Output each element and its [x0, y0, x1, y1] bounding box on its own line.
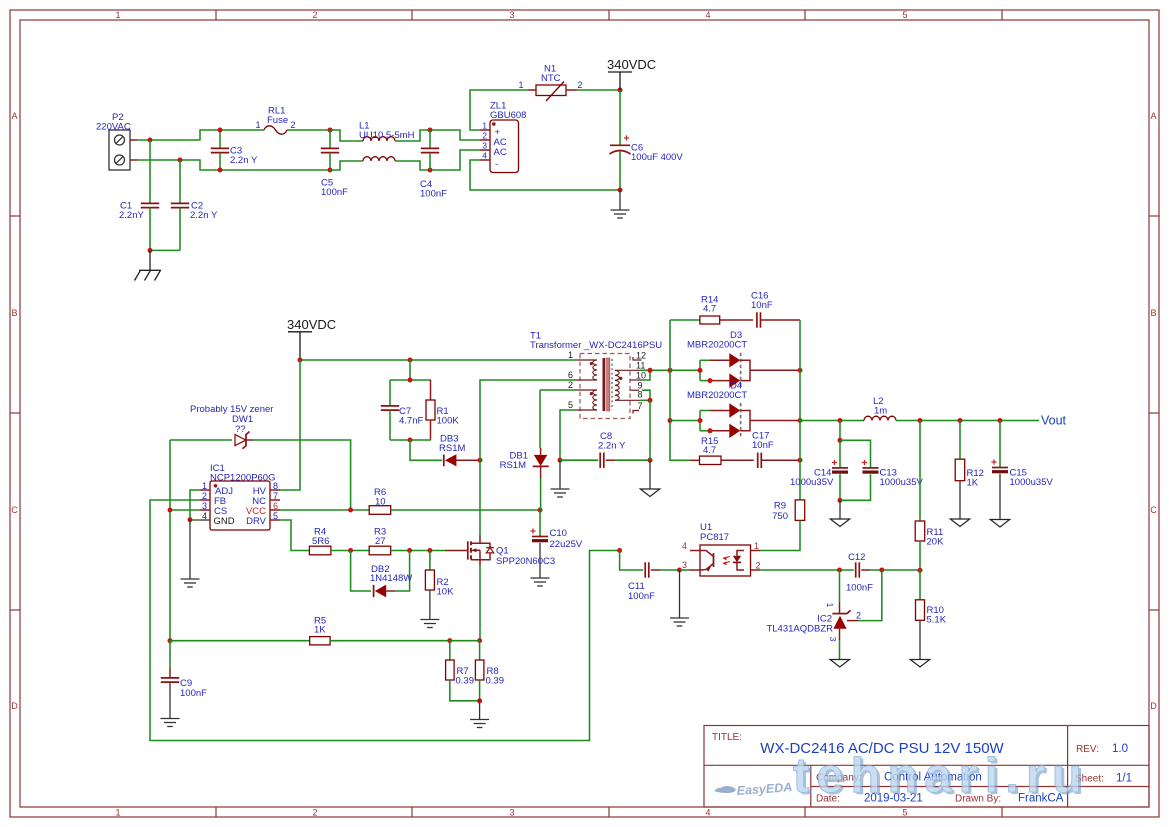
junction (480,460.2)	[478, 458, 483, 463]
junction (410,360)	[408, 358, 413, 363]
wire opto pin2 to C12	[760, 569, 854, 571]
svg-text:7: 7	[638, 401, 643, 411]
wire P2.2 to bottom rail	[137, 160, 330, 170]
svg-text:100nF: 100nF	[180, 688, 207, 699]
resistor R6 10	[369, 487, 391, 514]
svg-text:5: 5	[273, 511, 278, 521]
svg-text:2: 2	[290, 120, 295, 130]
junction (620,190)	[618, 188, 623, 193]
inductor L1	[359, 121, 415, 162]
junction (1000,420.5)	[998, 418, 1003, 423]
svg-text:4.7: 4.7	[703, 445, 716, 456]
svg-text:D: D	[11, 701, 18, 711]
ground (primary bulk)	[611, 190, 630, 218]
svg-text:TITLE:: TITLE:	[712, 732, 742, 743]
svg-text:0.39: 0.39	[456, 676, 475, 687]
svg-text:1K: 1K	[967, 478, 979, 489]
junction (840,500.3)	[838, 498, 843, 503]
svg-text:5R6: 5R6	[312, 536, 329, 547]
junction (430,130)	[428, 128, 433, 133]
wire P2.1 to top rail	[137, 130, 264, 140]
thermistor N1 NTC	[518, 64, 582, 102]
capacitor C12 100nF	[846, 552, 920, 594]
junction (800,460.2)	[798, 458, 803, 463]
junction (710,430.8)	[708, 428, 713, 433]
capacitor C3	[211, 130, 258, 170]
svg-text:R9: R9	[774, 501, 786, 512]
wire T1 pin11/10 secondary plus	[640, 369, 700, 371]
junction (670,420.5)	[668, 418, 673, 423]
wire C11 to opto pin3	[680, 569, 691, 571]
svg-text:100nF: 100nF	[321, 187, 348, 198]
resistor R7 0.39	[446, 641, 480, 701]
junction (960,420.5)	[958, 418, 963, 423]
junction (700,420.5)	[698, 418, 703, 423]
svg-text:2: 2	[202, 491, 207, 501]
svg-text:B: B	[11, 308, 17, 318]
svg-text:AC: AC	[494, 147, 507, 158]
svg-text:1: 1	[482, 121, 487, 131]
junction (650,400.3)	[648, 398, 653, 403]
optocoupler U1 PC817	[682, 522, 761, 576]
svg-text:5.1K: 5.1K	[927, 615, 947, 626]
ground (IC2)	[830, 660, 849, 668]
resistor R2 10K	[425, 551, 454, 620]
net flag 340VDC (primary rail)	[287, 317, 336, 360]
net flag 340VDC (top)	[607, 57, 656, 90]
svg-text:Fuse: Fuse	[267, 115, 288, 126]
capacitor C4	[420, 130, 447, 200]
junction (350.6,510)	[348, 508, 353, 513]
ground (C10)	[531, 577, 550, 579]
svg-text:1/1: 1/1	[1116, 773, 1132, 785]
svg-text:C10: C10	[550, 528, 567, 539]
junction (620,90)	[618, 88, 623, 93]
wire 340VDC down to IC1 HV	[280, 360, 300, 490]
junction (409.6,550.5)	[407, 548, 412, 553]
svg-text:3: 3	[509, 10, 514, 20]
svg-text:Q1: Q1	[496, 546, 509, 557]
svg-text:0.39: 0.39	[486, 676, 505, 687]
ground (C8 primary side)	[551, 460, 570, 497]
diode DB2 1N4148W	[351, 551, 413, 598]
resistor R9 750	[772, 500, 805, 522]
svg-text:100nF: 100nF	[628, 591, 655, 602]
svg-text:11: 11	[636, 361, 645, 371]
resistor R14 4.7	[670, 295, 753, 325]
junction (410,440)	[408, 438, 413, 443]
resistor R1 100K	[426, 380, 459, 440]
junction (560,460.2)	[558, 458, 563, 463]
transformer T1 WX-DC2416PSU	[530, 331, 662, 419]
diode D3 MBR20200CT	[687, 330, 800, 388]
svg-text:MBR20200CT: MBR20200CT	[687, 390, 747, 401]
wire R4 to R3	[331, 550, 369, 552]
svg-text:1: 1	[115, 10, 120, 20]
junction (180,160)	[178, 158, 183, 163]
junction (650,370.3)	[648, 368, 653, 373]
svg-text:1.0: 1.0	[1112, 743, 1128, 755]
wire T1 pin8/9 secondary return	[640, 399, 650, 401]
ground (C9)	[161, 718, 180, 720]
wire CS net	[170, 509, 200, 511]
svg-text:DRV: DRV	[246, 516, 267, 527]
svg-text:SPP20N60C3: SPP20N60C3	[496, 556, 555, 567]
resistor R3 27	[369, 527, 391, 555]
svg-text:10: 10	[375, 497, 386, 508]
junction (700,370.3)	[698, 368, 703, 373]
wire NTC to 340VDC node	[577, 89, 620, 91]
junction (670,370.3)	[668, 368, 673, 373]
svg-text:10nF: 10nF	[751, 300, 773, 311]
wire output rail	[799, 370, 801, 500]
svg-text:RS1M: RS1M	[500, 460, 526, 471]
svg-text:4: 4	[682, 541, 687, 551]
svg-text:100nF: 100nF	[846, 583, 873, 594]
svg-text:MBR20200CT: MBR20200CT	[687, 340, 747, 351]
svg-text:B: B	[1150, 308, 1156, 318]
junction (429.9,550.5)	[427, 548, 432, 553]
wire R3 to Q1 gate	[391, 550, 445, 552]
svg-text:6: 6	[273, 501, 278, 511]
svg-text:100K: 100K	[437, 416, 460, 427]
resistor R4 5R6	[309, 527, 331, 555]
junction (650,460.2)	[648, 458, 653, 463]
op-amp controller IC1 NCP1200P60G	[200, 463, 280, 530]
junction (150,140)	[148, 138, 153, 143]
wire bridge pin4 to negative rail	[470, 160, 620, 190]
svg-text:A: A	[11, 111, 17, 121]
capacitor C9 100nF	[161, 641, 207, 719]
junction (330,130)	[328, 128, 333, 133]
wire L1 to C4 top	[395, 130, 480, 141]
svg-text:5: 5	[568, 400, 573, 410]
svg-text:3: 3	[682, 560, 687, 570]
svg-text:2: 2	[312, 808, 317, 818]
svg-text:1: 1	[202, 481, 207, 491]
ground (R7/R8)	[470, 701, 489, 728]
junction (220,130)	[218, 128, 223, 133]
junction (190,519.7)	[188, 517, 193, 522]
capacitor C6 100uF 400V	[610, 90, 684, 190]
shunt regulator IC2 TL431AQDBZR	[766, 570, 881, 660]
svg-text:1: 1	[518, 80, 523, 90]
fuse RL1	[255, 106, 295, 135]
svg-text:3: 3	[509, 808, 514, 818]
wire R9 to opto pin1	[760, 521, 800, 551]
svg-text:27: 27	[375, 536, 386, 547]
inductor L2 1m	[864, 396, 896, 421]
svg-text:4: 4	[202, 511, 207, 521]
capacitor C2	[171, 160, 218, 250]
svg-text:5: 5	[902, 808, 907, 818]
svg-text:1000u35V: 1000u35V	[880, 477, 924, 488]
svg-text:6: 6	[568, 370, 573, 380]
svg-text:Transformer _WX-DC2416PSU: Transformer _WX-DC2416PSU	[530, 340, 662, 351]
capacitor C13 1000u35V	[840, 440, 923, 500]
ground (R10)	[910, 660, 929, 668]
svg-text:1: 1	[754, 541, 759, 551]
wire T1 pin5 riser	[560, 410, 575, 460]
capacitor C14 1000u35V	[790, 421, 848, 501]
junction (430,170)	[428, 168, 433, 173]
svg-text:340VDC: 340VDC	[607, 57, 656, 72]
svg-text:10nF: 10nF	[752, 440, 774, 451]
svg-text:2: 2	[756, 561, 761, 571]
svg-text:340VDC: 340VDC	[287, 317, 336, 332]
capacitor C5	[321, 130, 348, 198]
svg-text:4: 4	[705, 808, 710, 818]
svg-text:UU10.5-5mH: UU10.5-5mH	[359, 130, 415, 141]
svg-text:7: 7	[273, 491, 278, 501]
ground (C14)	[830, 500, 849, 526]
ground (R12)	[950, 519, 969, 527]
svg-text:GND: GND	[214, 516, 235, 527]
wire ADJ to GND	[190, 490, 200, 520]
ground (secondary return)	[640, 460, 659, 496]
wire Vout line	[800, 420, 864, 422]
svg-text:C: C	[1150, 505, 1157, 515]
svg-text:8: 8	[638, 390, 643, 400]
ground (opto pin3)	[670, 570, 689, 626]
svg-text:20K: 20K	[927, 537, 945, 548]
wire L2 to Vout	[896, 420, 1039, 422]
svg-text:3: 3	[202, 501, 207, 511]
svg-text:4.7nF: 4.7nF	[399, 416, 423, 427]
svg-text:2: 2	[312, 10, 317, 20]
svg-text:1: 1	[825, 603, 835, 608]
resistor R11 20K	[915, 421, 944, 571]
svg-text:2.2n Y: 2.2n Y	[190, 210, 218, 221]
ground (IC1 GND)	[181, 520, 200, 587]
svg-text:4.7: 4.7	[703, 304, 716, 315]
bridge rectifier ZL1 GBU608	[480, 101, 526, 173]
svg-text:750: 750	[772, 511, 788, 522]
svg-text:NCP1200P60G: NCP1200P60G	[210, 473, 275, 484]
zener DW1	[170, 404, 351, 510]
svg-text:2.2n Y: 2.2n Y	[230, 155, 258, 166]
svg-text:1: 1	[115, 808, 120, 818]
junction (350.6,550.5)	[348, 548, 353, 553]
svg-text:1m: 1m	[874, 406, 887, 417]
junction (170,510)	[168, 508, 173, 513]
wire R5 to R8	[450, 640, 480, 642]
svg-text:C12: C12	[848, 552, 865, 563]
transistor Q1 SPP20N60C3	[468, 535, 555, 567]
junction (920,420.5)	[918, 418, 923, 423]
svg-text:tehnari.ru: tehnari.ru	[793, 749, 1089, 803]
svg-text:2: 2	[568, 380, 573, 390]
wire 340VDC rail to T1 pin1	[300, 359, 575, 361]
svg-text:4: 4	[482, 151, 487, 161]
svg-text:5: 5	[902, 10, 907, 20]
svg-text:1N4148W: 1N4148W	[370, 573, 412, 584]
svg-text:C: C	[11, 505, 18, 515]
junction (449.8,640.6)	[447, 638, 452, 643]
wire bridge pin1 riser to NTC	[470, 90, 528, 130]
capacitor C1	[119, 140, 159, 250]
wire D4 feed	[670, 420, 700, 422]
svg-text:PC817: PC817	[700, 532, 729, 543]
junction (840,420.5)	[838, 418, 843, 423]
junction (540,510)	[538, 508, 543, 513]
junction (920,570.3)	[918, 568, 923, 573]
capacitor C8 2.2n Y	[560, 431, 650, 468]
junction (479.6,640.6)	[477, 638, 482, 643]
capacitor C17 10nF	[752, 431, 800, 469]
title block	[704, 726, 1149, 808]
svg-text:1: 1	[568, 350, 573, 360]
svg-text:Vout: Vout	[1041, 414, 1067, 428]
svg-text:1K: 1K	[314, 625, 326, 636]
svg-text:2: 2	[482, 131, 487, 141]
svg-text:22u25V: 22u25V	[550, 539, 583, 550]
svg-text:A: A	[1150, 111, 1156, 121]
junction (710,380.6)	[708, 378, 713, 383]
junction (881.8,570)	[879, 568, 884, 573]
wire T1 pin6 to Q1 drain	[480, 380, 575, 535]
capacitor C7	[381, 380, 424, 440]
wire fuse to C5	[287, 130, 363, 141]
EasyEDA logo	[714, 780, 793, 798]
wire L1 to C4 bottom	[395, 150, 480, 170]
wire snubber bottom	[390, 439, 431, 441]
wire VCC rail	[280, 509, 369, 511]
resistor R10 5.1K	[916, 570, 947, 660]
capacitor C10 22u25V	[530, 510, 583, 578]
junction (479.6,700.8)	[477, 698, 482, 703]
resistor R15 4.7	[690, 436, 754, 465]
resistor R12 1K	[955, 421, 984, 520]
junction (170,640.7)	[168, 638, 173, 643]
svg-text:3: 3	[828, 637, 838, 642]
junction (679.5,570)	[677, 568, 682, 573]
junction (150,250.4)	[148, 248, 153, 253]
capacitor C16 10nF	[751, 291, 800, 328]
svg-text:GBU608: GBU608	[490, 110, 526, 121]
resistor R5 1K	[170, 616, 450, 645]
svg-text:2.2n Y: 2.2n Y	[598, 441, 626, 452]
wire R6 to VCC node	[391, 509, 540, 511]
wire T1 pin2 to DB1	[540, 389, 575, 391]
resistor R8 0.39	[475, 641, 504, 701]
svg-text:12: 12	[636, 351, 646, 361]
svg-text:1000u35V: 1000u35V	[1010, 477, 1054, 488]
junction (839.5,570)	[837, 568, 842, 573]
wire snubber vertical (sec+)	[670, 320, 690, 460]
svg-text:2: 2	[577, 80, 582, 90]
capacitor C15 1000u35V	[991, 421, 1053, 520]
svg-text:1000u35V: 1000u35V	[790, 477, 834, 488]
wire Q1 source down	[479, 566, 481, 641]
wire DRV to R4	[280, 520, 310, 551]
svg-text:??: ??	[235, 424, 246, 435]
wire bottom rail to L1	[330, 161, 363, 170]
wire snubber tap	[409, 360, 411, 380]
wire snubber top to output rail	[799, 320, 801, 370]
svg-text:-: -	[495, 159, 498, 170]
svg-text:10: 10	[636, 371, 646, 381]
junction (330,170)	[328, 168, 333, 173]
svg-text:NTC: NTC	[541, 73, 561, 84]
ground (C15)	[990, 520, 1009, 528]
svg-text:TL431AQDBZR: TL431AQDBZR	[766, 624, 833, 635]
svg-text:1: 1	[255, 120, 260, 130]
junction (800,370.3)	[798, 368, 803, 373]
earth ground (mains)	[135, 250, 162, 280]
tehnari.ru watermark	[793, 749, 1091, 805]
junction (840,440.3)	[838, 438, 843, 443]
diode DB3 RS1M	[439, 434, 480, 467]
junction (619.6,550.5)	[617, 548, 622, 553]
svg-text:2: 2	[856, 611, 861, 621]
diode D4 MBR20200CT	[687, 381, 800, 439]
svg-text:4: 4	[705, 10, 710, 20]
svg-text:2.2nY: 2.2nY	[119, 210, 144, 221]
connector P2 220VAC	[96, 112, 137, 170]
diode DB1 RS1M	[500, 390, 549, 510]
svg-text:D: D	[1150, 701, 1157, 711]
capacitor C11 100nF	[620, 551, 680, 603]
svg-text:3: 3	[482, 141, 487, 151]
svg-text:RS1M: RS1M	[439, 443, 465, 454]
junction (300,360)	[298, 358, 303, 363]
svg-text:100uF 400V: 100uF 400V	[631, 152, 683, 163]
junction (220,170)	[218, 168, 223, 173]
wire FB to opto	[150, 500, 620, 741]
svg-text:220VAC: 220VAC	[96, 122, 131, 133]
svg-text:100nF: 100nF	[420, 189, 447, 200]
junction (800,420.5)	[798, 418, 803, 423]
wire C1-C2 ground link	[150, 249, 180, 251]
junction (410,380)	[408, 378, 413, 383]
ground (R2)	[420, 619, 439, 621]
svg-text:10K: 10K	[437, 587, 455, 598]
